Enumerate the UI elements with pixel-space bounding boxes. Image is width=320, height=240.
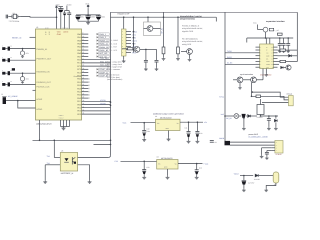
wire opto out bottom <box>78 165 90 181</box>
svg-text:RESET_IN: RESET_IN <box>12 37 22 40</box>
connector pad <box>2 83 5 86</box>
net label pin 14 <box>97 75 99 77</box>
J6 pin stubs <box>271 147 275 149</box>
connector pad <box>2 47 5 50</box>
resistor R9 on sync out <box>256 95 261 98</box>
svg-text:2 - VCC: 2 - VCC <box>111 49 118 52</box>
net label pin 3 <box>97 39 99 41</box>
wire MCU right pin row 17 <box>82 84 89 86</box>
capacitor C26 <box>287 37 289 39</box>
svg-text:Reserved: Reserved <box>74 75 81 78</box>
svg-text:PC4: PC4 <box>77 71 81 74</box>
wire MCU right pin row 10 <box>82 62 111 64</box>
wire reg1 input <box>131 122 156 124</box>
section border middle vertical <box>224 12 226 141</box>
MCU bottom pin stubs <box>60 120 62 127</box>
ground C25 <box>243 185 245 189</box>
wire MCU right pin row 20 <box>82 94 89 96</box>
wire MCU right pin row 12 <box>82 68 89 70</box>
ground C21 <box>282 50 286 53</box>
wire U6 bottom <box>265 69 267 74</box>
svg-text:AC_IN: AC_IN <box>226 117 232 120</box>
capacitor C22 polarized <box>242 114 246 118</box>
svg-text:PWML_A1: PWML_A1 <box>99 43 108 46</box>
wire MCU right pin row 6 <box>82 49 89 51</box>
transistor Q3 <box>147 26 153 32</box>
wire row <box>10 48 36 50</box>
wire J2 split <box>18 101 36 108</box>
wire R8 <box>278 61 281 63</box>
wire icsp horizontal <box>111 16 217 18</box>
ground C20 <box>278 50 282 53</box>
svg-text:PD7: PD7 <box>77 100 81 103</box>
wire opto pin2 <box>45 164 60 166</box>
svg-text:100n: 100n <box>101 16 105 19</box>
svg-text:demodulation / carrier: demodulation / carrier <box>180 15 202 18</box>
capacitor C17 <box>156 49 158 60</box>
svg-text:RF_IN: RF_IN <box>161 28 164 34</box>
wire middle link <box>146 48 157 50</box>
svg-text:PB1: PB1 <box>77 36 81 39</box>
wire C3 lead <box>64 15 66 29</box>
wire reg2 gnd pin <box>167 169 169 176</box>
junction rail <box>87 14 89 16</box>
svg-text:VCCIN: VCCIN <box>100 99 106 102</box>
wire row <box>10 72 36 74</box>
ground C14 <box>195 176 199 179</box>
wire ICSP top <box>123 17 125 29</box>
wire bus line2 <box>94 143 111 145</box>
svg-text:X3 aux: X3 aux <box>287 93 293 96</box>
diode D8 <box>255 174 258 177</box>
capacitor C13 <box>143 161 145 169</box>
svg-text:3: 3 <box>49 33 50 36</box>
capacitor C14 <box>196 164 198 170</box>
svg-text:VCC3: VCC3 <box>234 173 239 176</box>
wire VCC to P1 <box>258 29 263 31</box>
capacitor C2 100n <box>58 8 63 10</box>
resistor R3 <box>162 47 165 54</box>
wire stub to demod box <box>147 17 149 22</box>
svg-text:10u: 10u <box>81 16 84 19</box>
wire sync drops <box>251 83 253 97</box>
svg-text:PD2: PD2 <box>77 84 81 87</box>
wire J6 pin4 drop <box>267 150 272 152</box>
svg-text:15: 15 <box>271 50 273 52</box>
svg-text:12: 12 <box>271 58 273 60</box>
ground C17 <box>155 68 159 71</box>
wire X1 feed <box>225 115 234 117</box>
ground cluster B <box>86 21 90 24</box>
junction rail P1 <box>265 37 267 39</box>
wire pad lead <box>5 72 7 74</box>
svg-text:4: 4 <box>45 33 46 36</box>
capacitor C7 polarized <box>96 15 101 17</box>
svg-text:PWM2B_A1: PWM2B_A1 <box>36 48 48 51</box>
transistor Q6 <box>251 77 257 83</box>
svg-text:PWM/RST_OUT: PWM/RST_OUT <box>36 58 52 61</box>
junction output cap <box>243 175 245 177</box>
svg-text:13: 13 <box>271 55 273 57</box>
wire rail horizontal <box>76 14 100 16</box>
junction reg1 out cap1 <box>188 121 190 123</box>
svg-text:Q1: Q1 <box>13 12 15 15</box>
capacitor C6 polarized <box>85 15 90 17</box>
wire pad lead <box>5 59 7 61</box>
svg-text:RS232 at 38400, at: RS232 at 38400, at <box>182 25 200 28</box>
connector J5 <box>289 96 294 106</box>
optocoupler U3 <box>60 153 77 172</box>
wire rail left drop <box>246 38 248 43</box>
ground J6 pin3 <box>260 155 264 158</box>
junction sync <box>252 91 254 93</box>
wire MCU right pin row 18 <box>82 88 89 90</box>
net label pin 4 <box>97 43 99 45</box>
svg-text:using ASK: using ASK <box>182 43 192 46</box>
svg-text:J2: J2 <box>1 93 3 96</box>
net label pin 6 <box>97 49 99 51</box>
svg-text:MOSI: MOSI <box>132 39 137 42</box>
capacitor C9 annotation <box>210 141 214 143</box>
wire MCU right pin row 1 <box>82 33 89 35</box>
section border top <box>111 11 298 13</box>
wire reg2 output <box>178 163 203 165</box>
svg-text:PB2: PB2 <box>77 39 81 42</box>
connector J2 <box>3 97 6 104</box>
connector J3 ICSP <box>122 29 127 56</box>
svg-text:PD0: PD0 <box>77 78 81 81</box>
net label pin 13 <box>97 71 99 73</box>
microcontroller U1 AT90PWM3 <box>36 29 82 120</box>
wire MCU right pin row 9 <box>82 59 111 61</box>
wire MCU right pin row 16 <box>82 81 89 83</box>
ground C26 <box>286 50 290 53</box>
wire opto pin1 drop <box>53 140 55 157</box>
transistor Q4 <box>187 49 193 55</box>
section border left vertical <box>110 12 112 155</box>
varistor circle <box>20 51 24 55</box>
connector pad <box>2 59 5 62</box>
svg-text:5 - RST: 5 - RST <box>111 46 118 49</box>
capacitor C4 <box>67 13 71 15</box>
ground C16 <box>144 68 148 71</box>
U6 pin rows <box>256 46 260 48</box>
wire C5 lead <box>77 15 79 16</box>
wire icsp end stub <box>215 17 217 21</box>
varistor circle <box>20 77 24 81</box>
resistor R4 <box>177 17 179 47</box>
capacitor C3 <box>63 12 66 14</box>
svg-text:PIO/SCK_CLK: PIO/SCK_CLK <box>36 86 50 89</box>
ground reg2 <box>166 176 170 179</box>
connector pad <box>2 72 5 75</box>
svg-text:16: 16 <box>271 47 273 49</box>
capacitor C21 <box>283 38 285 43</box>
wire C22 <box>245 115 248 117</box>
ground varistor <box>21 55 24 58</box>
junction reg1 out cap2 <box>197 121 199 123</box>
svg-text:unsynchronized carrier,: unsynchronized carrier, <box>182 27 203 30</box>
capacitor C5 polarized <box>75 15 80 17</box>
svg-text:GND: GND <box>57 33 62 36</box>
net label pin 8 <box>97 55 99 57</box>
capacitor filter <box>8 82 10 86</box>
svg-text:U5: U5 <box>157 155 159 158</box>
svg-text:PE2: PE2 <box>77 110 81 113</box>
ground C24 <box>265 157 269 160</box>
demod input box <box>144 22 161 36</box>
wire diode to jack <box>259 175 274 177</box>
wire MCU right pin row 8 <box>82 56 89 58</box>
ground Q5 <box>239 83 241 87</box>
svg-text:GND: GND <box>266 55 269 57</box>
capacitor C11 <box>188 122 190 131</box>
capacitor C16 <box>144 60 148 62</box>
svg-text:PB3: PB3 <box>77 43 81 46</box>
junction reg2 cap <box>143 161 145 163</box>
svg-text:xtal/crystal_driver: xtal/crystal_driver <box>36 123 52 126</box>
svg-text:PE1: PE1 <box>77 107 81 110</box>
ground R4 <box>177 54 179 57</box>
svg-text:expansion interface: expansion interface <box>266 20 286 23</box>
svg-text:MOC3063T_M: MOC3063T_M <box>61 172 74 175</box>
wire q2 in <box>122 48 128 50</box>
wire bus right line1 <box>230 141 275 143</box>
svg-text:D: D <box>266 47 267 49</box>
svg-text:RXD0: RXD0 <box>227 56 232 59</box>
wire MCU right pin row 4 <box>82 43 89 45</box>
wire XTAL drop <box>56 17 58 29</box>
wire R7 <box>278 49 281 51</box>
wire MCU right pin row 23 <box>82 104 111 106</box>
svg-text:GND - common: GND - common <box>107 68 120 71</box>
junction X1 feed <box>224 115 226 117</box>
U6 right resistor R8 <box>280 60 286 62</box>
transistor Q7 <box>286 65 291 70</box>
wire reset pin <box>30 36 36 38</box>
wire sync out 2 <box>252 96 289 100</box>
svg-text:X4: X4 <box>274 184 276 187</box>
wire jack gnd <box>266 183 276 189</box>
series filter FB2 <box>225 141 231 145</box>
transistor Q5 <box>237 77 243 83</box>
connector X4 jack <box>273 172 279 183</box>
svg-text:PWMH_B2: PWMH_B2 <box>99 46 108 49</box>
wire VCC stem <box>56 10 58 18</box>
capacitor filter <box>8 71 10 75</box>
wire sync <box>233 79 237 81</box>
wire opto pin1 <box>54 157 60 159</box>
wire q3 leads <box>144 28 148 30</box>
DC converter U7 <box>257 105 264 115</box>
svg-text:unsynchronized carrier,: unsynchronized carrier, <box>182 40 203 43</box>
ground opto right <box>88 180 92 183</box>
junction bus opto drop <box>54 140 56 142</box>
wire cap drop 1 <box>145 49 147 60</box>
inductor FB1 <box>269 28 273 31</box>
transistor Q2 cluster <box>128 48 133 50</box>
wire crystal to MCU <box>21 16 57 19</box>
wire X1 out <box>239 115 242 117</box>
svg-text:(serial bootloader): (serial bootloader) <box>107 78 123 81</box>
svg-text:RC demodulation,: RC demodulation, <box>182 38 198 41</box>
wire MCU right pin row 7 <box>82 52 89 54</box>
svg-text:1N4148: 1N4148 <box>254 178 260 181</box>
svg-text:PC3: PC3 <box>77 68 81 71</box>
capacitor C25 polarized <box>243 176 245 181</box>
svg-text:PD4: PD4 <box>77 91 81 94</box>
wire reg1 output <box>180 121 203 123</box>
wire J6 pin3 drop <box>262 147 272 149</box>
ICSP pins right <box>126 31 131 33</box>
ground reg1 <box>167 138 171 141</box>
svg-text:AVCC: AVCC <box>67 3 73 6</box>
net label pin 2 <box>97 36 99 38</box>
ground varistor <box>21 81 24 84</box>
svg-text:X2 BUS: X2 BUS <box>276 153 283 156</box>
net label pin 1 <box>97 33 99 35</box>
wire row <box>10 59 36 61</box>
capacitor C24 <box>266 151 268 153</box>
diode D6 <box>248 115 251 118</box>
wire D6 to reg <box>251 115 257 117</box>
diode D9 <box>281 66 283 68</box>
svg-text:R: R <box>266 50 267 52</box>
wire MCU right pin row 15 <box>82 78 89 80</box>
svg-text:RXD/MISO_IN: RXD/MISO_IN <box>36 70 50 73</box>
svg-text:signals OOK: signals OOK <box>182 30 194 33</box>
wire cap tie <box>78 20 99 22</box>
wire J2 pin1 <box>6 100 36 102</box>
ground Q4 <box>189 54 191 58</box>
svg-text:CANH: CANH <box>266 64 270 66</box>
svg-text:100n: 100n <box>91 16 95 19</box>
U6 right resistor R7 <box>280 49 286 51</box>
crystal Y1 <box>8 14 20 18</box>
wire MCU right pin row 14 <box>82 75 89 77</box>
wire MCU right pin row 26 <box>82 113 111 115</box>
capacitor C10 <box>143 123 145 131</box>
junction right rows <box>110 101 112 103</box>
wire distribution rail <box>247 37 293 39</box>
ground ICSP <box>123 56 125 60</box>
svg-text:3 - SCK: 3 - SCK <box>111 42 118 45</box>
svg-text:U1: U1 <box>36 26 38 29</box>
wire bus right line2 <box>230 144 275 146</box>
MCU left stub extra <box>33 89 36 91</box>
VCC riser <box>257 25 259 30</box>
svg-text:ADC_IN0: ADC_IN0 <box>99 52 107 55</box>
IC U6 expansion <box>260 44 274 69</box>
ground R3 <box>163 54 165 57</box>
svg-text:CANL: CANL <box>266 61 270 63</box>
resistor R10 top right <box>278 33 283 35</box>
junction reg2 out cap <box>196 163 198 165</box>
diode D7 zener <box>275 115 277 117</box>
wire MCU right pin row 13 <box>82 72 89 74</box>
svg-text:SN65HVD230: SN65HVD230 <box>260 74 271 77</box>
junction bus MCU drop <box>39 140 41 142</box>
capacitor C20 pair <box>279 37 281 39</box>
wire opto out top <box>78 157 109 159</box>
ground C11 <box>187 140 191 143</box>
ground C12 <box>195 140 199 143</box>
wire row <box>10 83 36 85</box>
svg-text:PIO/MOSI_OUT: PIO/MOSI_OUT <box>36 81 51 84</box>
wire varistor <box>22 49 24 51</box>
wire MCU right pin row 25 <box>82 110 111 112</box>
svg-text:GNDIN: GNDIN <box>100 102 106 105</box>
svg-text:GNDB: GNDB <box>219 137 225 140</box>
wire demod vertical <box>163 12 165 47</box>
svg-text:PB4: PB4 <box>77 46 81 49</box>
svg-text:AGND: AGND <box>36 108 42 111</box>
svg-text:11: 11 <box>271 61 273 63</box>
ground C23 <box>267 127 271 130</box>
wire D7 <box>275 116 277 119</box>
svg-text:AVCC: AVCC <box>63 31 69 34</box>
net label pin 5 <box>97 46 99 48</box>
wire reg2 input <box>121 160 157 162</box>
wire ICSP right drop <box>133 17 135 52</box>
svg-text:4 6 17 18: 4 6 17 18 <box>62 27 68 29</box>
svg-text:7.3728 MHz: 7.3728 MHz <box>9 20 20 23</box>
wire q2 out <box>140 48 146 50</box>
svg-text:PC0: PC0 <box>77 59 81 62</box>
svg-text:TX2: TX2 <box>47 162 50 165</box>
svg-text:U4: U4 <box>155 115 157 118</box>
svg-text:synchronization: synchronization <box>240 73 253 76</box>
capacitor C23 <box>268 115 270 117</box>
wire output <box>240 175 253 177</box>
svg-text:PWM_1: PWM_1 <box>99 33 106 36</box>
wire MCU right pin row 5 <box>82 46 89 48</box>
svg-text:(requirements): (requirements) <box>180 18 195 21</box>
section border right vertical <box>296 12 298 61</box>
wire MCU right pin row 2 <box>82 36 89 38</box>
svg-text:Vcc: Vcc <box>266 53 269 55</box>
svg-text:TXD_OUT: TXD_OUT <box>100 57 110 60</box>
capacitor C1 crystal load <box>6 15 7 19</box>
wire drop to IC <box>265 38 267 44</box>
diode D5 <box>289 55 292 57</box>
wire varistor <box>22 73 24 76</box>
connector circle X1 <box>234 114 239 119</box>
svg-text:16 15: 16 15 <box>45 27 49 29</box>
ground C10 <box>142 138 146 141</box>
wire chain right <box>261 115 279 117</box>
ground MCU bottom <box>61 127 65 130</box>
capacitor filter <box>8 47 10 51</box>
svg-text:TXD0: TXD0 <box>227 50 232 53</box>
wire C4 lead <box>68 15 70 29</box>
wire C6 lead <box>87 19 89 21</box>
wire U7 bottom <box>260 115 262 117</box>
svg-text:PD5: PD5 <box>77 94 81 97</box>
svg-text:RS: RS <box>266 58 268 60</box>
junction crystal net <box>56 16 58 18</box>
wire pad lead <box>5 48 7 50</box>
wire C2 lead <box>60 12 62 29</box>
svg-text:PWM_2: PWM_2 <box>99 36 106 39</box>
wire MCU right pin row 3 <box>82 40 89 42</box>
svg-text:PB6: PB6 <box>77 52 81 55</box>
ground C13 <box>142 176 146 179</box>
svg-text:U3: U3 <box>61 150 63 153</box>
svg-text:PWMH_A1: PWMH_A1 <box>99 39 108 42</box>
svg-text:L_AC: L_AC <box>275 29 280 32</box>
svg-text:PC2: PC2 <box>77 65 81 68</box>
